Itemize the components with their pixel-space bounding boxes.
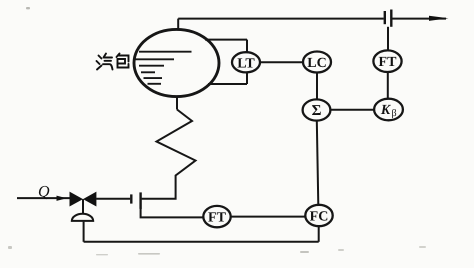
orifice plate FE1 left bar	[384, 11, 386, 24]
wire: drum top riser	[177, 19, 179, 30]
level controller LC bubble	[303, 52, 331, 73]
svg-text:LT: LT	[237, 56, 255, 71]
svg-text:K: K	[380, 103, 392, 118]
wire: FT1 to KB	[387, 72, 389, 99]
water level line 3	[139, 65, 164, 67]
feed flow transmitter FT2 bubble	[203, 206, 230, 227]
wire: level tap vertical through LT	[246, 40, 248, 84]
svg-text:FT: FT	[379, 55, 398, 70]
svg-text:LC: LC	[307, 56, 326, 71]
wire: sigma to KB	[330, 109, 374, 111]
water level line 5	[144, 77, 163, 79]
water level line 2	[135, 58, 175, 60]
wire: FT2 to FC	[231, 216, 306, 218]
wire: drum bottom downcomer	[176, 96, 178, 109]
汽 water radical dots	[99, 56, 102, 59]
wire: sigma down to FC	[317, 120, 319, 205]
feed flow arrowhead	[57, 196, 67, 201]
level transmitter LT bubble	[232, 52, 260, 72]
orifice plate FE2 left bar	[130, 194, 132, 203]
gain KB bubble	[374, 99, 403, 121]
summer sigma bubble	[303, 99, 331, 120]
steam flow transmitter FT1 bubble	[373, 50, 401, 72]
water level line 4	[141, 71, 155, 73]
water level line 1	[139, 51, 192, 53]
wire: valve to orifice FE2	[96, 198, 130, 200]
valve stem	[82, 199, 84, 214]
water level line 6	[148, 83, 162, 85]
汽 qi part	[104, 54, 107, 58]
label: drum name 汽包 (hand drawn glyphs)	[97, 54, 129, 70]
wire: bottom feedback line	[84, 241, 319, 243]
steam flow arrowhead	[429, 16, 449, 21]
feed flow controller FC bubble	[305, 205, 332, 226]
wire: actuator down	[83, 222, 85, 242]
包 inner si	[118, 59, 126, 64]
feedwater heating coil (zigzag)	[142, 110, 196, 199]
svg-text:FC: FC	[310, 210, 329, 225]
包 wrap radical	[117, 54, 120, 58]
control valve body	[70, 192, 84, 207]
wire: drum level tap lower	[208, 83, 247, 85]
wire: LT to LC	[260, 61, 303, 63]
wire: orifice FE1 to FT1	[387, 27, 389, 51]
wire: LC to sigma	[316, 72, 318, 99]
svg-text:FT: FT	[208, 211, 227, 226]
svg-text:β: β	[391, 108, 396, 119]
svg-text:Q: Q	[38, 184, 50, 201]
orifice plate FE1 right bar	[390, 10, 392, 27]
steam drum (boiler drum)	[134, 29, 219, 96]
wire: top steam pipe left of orifice	[178, 18, 383, 20]
wire: drum level tap upper	[205, 39, 247, 41]
valve diaphragm actuator	[72, 214, 93, 221]
wire: bottom feedback up to FC	[318, 226, 320, 241]
svg-text:Σ: Σ	[312, 103, 322, 119]
orifice plate FE2 right bar	[139, 192, 141, 208]
wire: feedwater inlet line Q	[17, 197, 70, 199]
wire: orifice FE2 to FT2	[141, 208, 204, 217]
wire: top steam pipe right of orifice	[392, 18, 446, 20]
